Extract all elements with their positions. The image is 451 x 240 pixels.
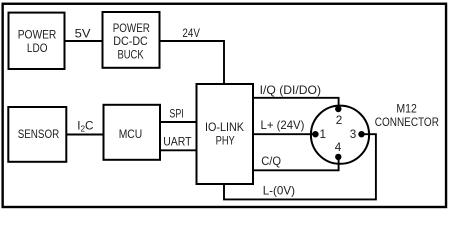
svg-text:IO-LINK: IO-LINK <box>205 121 244 134</box>
wire L-(0V) to pin 3 <box>224 134 376 199</box>
pin 2 <box>335 106 342 127</box>
block U5 IO-LINK PHY <box>197 84 254 184</box>
svg-text:L-(0V): L-(0V) <box>263 184 295 197</box>
svg-text:I2C: I2C <box>77 120 93 134</box>
svg-text:POWER: POWER <box>113 22 150 35</box>
wire UART bus <box>160 136 198 151</box>
svg-text:I/Q (DI/DO): I/Q (DI/DO) <box>260 84 321 97</box>
svg-text:POWER: POWER <box>18 29 57 42</box>
svg-text:BUCK: BUCK <box>118 48 144 61</box>
svg-text:DC-DC: DC-DC <box>113 35 148 48</box>
svg-text:SPI: SPI <box>169 107 183 120</box>
wire SPI bus <box>160 107 198 122</box>
svg-text:SENSOR: SENSOR <box>18 128 60 141</box>
svg-text:4: 4 <box>335 141 342 154</box>
pin 3 <box>350 128 365 141</box>
svg-text:2: 2 <box>336 114 343 127</box>
block U3 SENSOR <box>8 107 66 162</box>
block U1 POWER LDO <box>9 13 65 69</box>
svg-text:5V: 5V <box>75 28 91 41</box>
svg-text:M12: M12 <box>396 102 417 115</box>
svg-text:1: 1 <box>320 128 327 141</box>
svg-text:CONNECTOR: CONNECTOR <box>375 116 439 129</box>
pin 4 <box>335 141 342 160</box>
block U4 MCU <box>104 105 161 160</box>
wire C/Q to pin 4 <box>253 155 339 170</box>
svg-text:3: 3 <box>350 128 357 141</box>
svg-text:C/Q: C/Q <box>261 155 281 168</box>
wire 24V net <box>160 27 225 85</box>
block U2 POWER DC-DC BUCK <box>103 12 160 68</box>
wire I2C bus <box>66 120 104 135</box>
wire I/Q (DI/DO) to pin 2 <box>253 84 339 109</box>
pin 1 <box>312 128 326 141</box>
svg-text:PHY: PHY <box>216 134 235 147</box>
wire L+ (24V) to pin 1 <box>253 119 316 134</box>
wire 5V net <box>65 28 104 42</box>
connector J1 M12 body <box>311 102 439 163</box>
svg-text:L+ (24V): L+ (24V) <box>261 119 305 132</box>
svg-text:MCU: MCU <box>119 128 143 141</box>
svg-text:LDO: LDO <box>27 42 48 55</box>
svg-text:UART: UART <box>163 136 191 149</box>
svg-text:24V: 24V <box>182 27 200 40</box>
